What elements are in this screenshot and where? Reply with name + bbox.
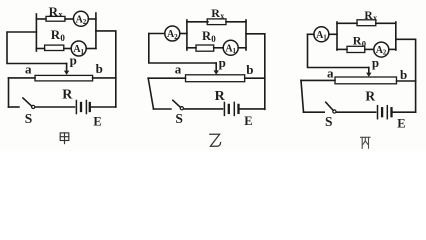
wire: Rx to A2 bbox=[65, 18, 73, 20]
svg-text:a: a bbox=[327, 66, 334, 81]
switch S (乙) bbox=[173, 100, 181, 107]
svg-text:1: 1 bbox=[233, 47, 237, 55]
wire: a terminal (乙) bbox=[148, 77, 185, 79]
wire: a-side vertical down bbox=[8, 78, 10, 107]
wire: R0 to A2 (丙) bbox=[365, 48, 374, 50]
svg-text:b: b bbox=[400, 67, 407, 82]
svg-text:S: S bbox=[175, 111, 183, 126]
wire: right junction bar (丙) bbox=[395, 22, 397, 50]
slider arrow p (丙) bbox=[368, 68, 370, 74]
wire: Rx to right bar (丙) bbox=[376, 22, 396, 24]
svg-text:2: 2 bbox=[83, 18, 87, 26]
wire: top branch stub (丙) bbox=[337, 22, 357, 24]
wire: bottom left to switch (丙) bbox=[304, 111, 325, 113]
wire: A1 to left bar (丙) bbox=[329, 33, 337, 35]
resistor Rx (甲) bbox=[46, 16, 65, 21]
ammeter A1 (乙) bbox=[223, 40, 238, 55]
wire: battery to right vertical (乙) bbox=[240, 108, 265, 110]
wire: A2 to right bar bbox=[88, 18, 96, 20]
svg-text:R: R bbox=[353, 34, 362, 48]
svg-text:S: S bbox=[25, 111, 33, 126]
svg-text:1: 1 bbox=[81, 48, 85, 56]
svg-text:p: p bbox=[70, 53, 77, 68]
wire: a terminal bbox=[9, 77, 36, 79]
resistor R0 (乙) bbox=[196, 45, 214, 51]
label 乙 bbox=[210, 134, 221, 146]
svg-text:0: 0 bbox=[60, 33, 65, 43]
ammeter A2 (甲) bbox=[73, 11, 88, 26]
wire: b terminal (乙) bbox=[245, 77, 265, 79]
wire: bottom branch stub (乙) bbox=[187, 47, 196, 49]
wire: A2 to left bar bbox=[180, 33, 187, 35]
wire: A2 corner down to slider p (乙) bbox=[149, 34, 216, 64]
wire: a-side vertical down (乙) bbox=[148, 78, 153, 109]
wire: bottom left to switch (乙) bbox=[154, 108, 171, 110]
svg-text:b: b bbox=[246, 62, 253, 77]
svg-text:a: a bbox=[25, 61, 32, 76]
wire: right junction bar bbox=[95, 13, 97, 49]
label 甲 bbox=[60, 133, 69, 144]
svg-text:p: p bbox=[219, 55, 226, 70]
svg-text:x: x bbox=[373, 14, 377, 23]
resistor Rx (丙) bbox=[357, 20, 376, 26]
svg-text:0: 0 bbox=[211, 34, 216, 44]
switch S (甲) bbox=[23, 98, 32, 106]
svg-text:b: b bbox=[96, 61, 103, 76]
svg-text:x: x bbox=[58, 9, 63, 19]
wire: R0 to A1 bbox=[64, 48, 71, 50]
svg-text:0: 0 bbox=[362, 38, 366, 48]
wire: a terminal (丙) bbox=[301, 79, 335, 81]
slider arrow p (乙) bbox=[215, 63, 217, 71]
svg-text:R: R bbox=[215, 89, 226, 104]
wire: switch to battery (乙) bbox=[184, 108, 223, 110]
battery E (丙) bbox=[377, 106, 379, 119]
svg-text:R: R bbox=[62, 87, 73, 102]
wire: Rx to right bar (乙) bbox=[226, 21, 246, 23]
wire: switch to battery (丙) bbox=[336, 111, 375, 113]
svg-text:x: x bbox=[220, 12, 224, 21]
svg-text:R: R bbox=[364, 10, 373, 22]
wire: left junction to slider p bbox=[7, 32, 67, 64]
svg-text:2: 2 bbox=[383, 49, 387, 57]
wire: right junction bar (乙) bbox=[245, 20, 247, 50]
wire: bottom branch left stub bbox=[36, 48, 44, 50]
rheostat R (丙) bbox=[335, 77, 397, 84]
svg-text:2: 2 bbox=[174, 33, 178, 41]
wire: A1 to right bar bbox=[86, 48, 96, 50]
label 丙 bbox=[361, 137, 370, 148]
wire: b terminal bbox=[93, 77, 116, 79]
wire: left junction bar bbox=[35, 14, 37, 51]
rheostat R (甲) bbox=[35, 75, 93, 81]
ammeter A2 (丙) bbox=[374, 42, 389, 57]
ammeter A2 (乙) bbox=[165, 26, 180, 41]
wire: left junction bar (丙) bbox=[336, 22, 338, 50]
wire: A1 corner down to slider p (丙) bbox=[308, 34, 369, 67]
wire: A1 to right bar (乙) bbox=[238, 47, 246, 49]
wire: junction to right vertical down bbox=[96, 31, 116, 107]
slider arrow p (甲) bbox=[66, 64, 68, 72]
resistor Rx (乙) bbox=[207, 19, 226, 25]
svg-text:R: R bbox=[51, 27, 61, 42]
wire: bottom left to switch bbox=[9, 106, 19, 108]
wire: top branch left stub bbox=[36, 18, 46, 20]
wire: battery to right vertical (丙) bbox=[393, 111, 416, 113]
svg-text:p: p bbox=[372, 55, 379, 70]
battery E (甲) bbox=[75, 101, 77, 114]
svg-text:S: S bbox=[325, 114, 333, 129]
switch S (丙) bbox=[326, 102, 333, 110]
svg-text:E: E bbox=[93, 114, 101, 128]
wire: a-side vertical down (丙) bbox=[301, 80, 304, 112]
ammeter A1 (丙) bbox=[314, 27, 329, 42]
svg-text:R: R bbox=[365, 89, 375, 104]
wire: bottom branch stub (丙) bbox=[337, 48, 347, 50]
wire: switch to battery bbox=[36, 106, 75, 108]
svg-text:1: 1 bbox=[323, 34, 327, 42]
svg-text:R: R bbox=[211, 6, 220, 20]
wire: left edge to A2 bbox=[149, 33, 165, 35]
resistor R0 (丙) bbox=[347, 46, 365, 52]
svg-text:R: R bbox=[49, 4, 59, 19]
wire: R0 to A1 (乙) bbox=[214, 47, 224, 49]
wire: A2 to right bar (丙) bbox=[389, 48, 396, 50]
ammeter A1 (甲) bbox=[71, 41, 86, 56]
svg-text:E: E bbox=[244, 114, 252, 128]
svg-text:E: E bbox=[397, 117, 405, 131]
rheostat R (乙) bbox=[186, 75, 245, 82]
svg-text:a: a bbox=[175, 62, 182, 77]
wire: b terminal (丙) bbox=[397, 80, 416, 82]
wire: left edge to A1 (丙) bbox=[308, 33, 314, 35]
wire: top branch stub (乙) bbox=[187, 21, 208, 23]
battery E (乙) bbox=[223, 102, 225, 115]
wire: left junction bar (乙) bbox=[186, 20, 188, 50]
wire: junction to right vertical (乙) bbox=[246, 34, 265, 110]
wire: battery to right vertical bbox=[91, 106, 116, 108]
wire: junction to right vertical (丙) bbox=[396, 39, 416, 112]
resistor R0 (甲) bbox=[45, 45, 64, 50]
